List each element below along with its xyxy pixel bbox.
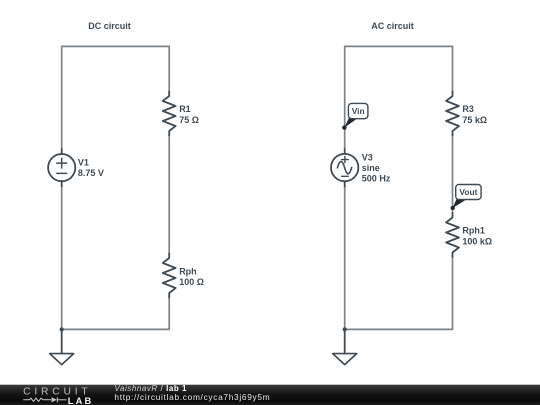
svg-text:DC circuit: DC circuit bbox=[88, 21, 131, 31]
node junction DC ground bbox=[60, 327, 64, 331]
svg-text:Rph1: Rph1 bbox=[462, 226, 485, 236]
resistor R1 bbox=[163, 92, 176, 136]
logo CircuitLab wordmark bbox=[23, 386, 93, 405]
ground AC bbox=[333, 329, 357, 364]
svg-text:Vin: Vin bbox=[352, 106, 365, 116]
svg-text:R3: R3 bbox=[462, 104, 474, 114]
svg-text:500 Hz: 500 Hz bbox=[362, 173, 391, 183]
voltage source V1 bbox=[48, 149, 75, 186]
svg-text:sine: sine bbox=[362, 163, 380, 173]
wire DC bottom bbox=[62, 186, 170, 330]
wire AC bottom bbox=[345, 186, 453, 330]
svg-text:100 kΩ: 100 kΩ bbox=[462, 236, 492, 246]
node junction AC ground bbox=[343, 327, 347, 331]
wire AC right middle bbox=[452, 135, 454, 214]
svg-text:AC circuit: AC circuit bbox=[371, 21, 414, 31]
svg-text:LAB: LAB bbox=[68, 396, 94, 405]
svg-text:V1: V1 bbox=[78, 158, 89, 168]
svg-text:http://circuitlab.com/cyca7h3j: http://circuitlab.com/cyca7h3j69y5m bbox=[114, 392, 270, 402]
svg-text:8.75 V: 8.75 V bbox=[78, 168, 104, 178]
resistor Rph1 bbox=[446, 213, 459, 257]
ground DC bbox=[50, 329, 74, 364]
resistor R3 bbox=[446, 92, 459, 136]
footer bar bbox=[0, 385, 540, 405]
wire DC right middle bbox=[168, 135, 170, 254]
voltage source V3 bbox=[331, 149, 358, 186]
svg-text:V3: V3 bbox=[362, 152, 373, 162]
svg-text:75 kΩ: 75 kΩ bbox=[462, 115, 487, 125]
svg-text:75 Ω: 75 Ω bbox=[179, 115, 199, 125]
node Vout flag bbox=[451, 185, 482, 211]
wire AC top bbox=[345, 46, 453, 149]
node Vin flag bbox=[342, 103, 368, 129]
logo resistor-diode squiggle bbox=[23, 397, 66, 402]
svg-text:100 Ω: 100 Ω bbox=[179, 277, 204, 287]
resistor Rph bbox=[163, 254, 176, 298]
wire DC top bbox=[62, 46, 170, 149]
svg-text:Vout: Vout bbox=[459, 187, 477, 197]
svg-text:R1: R1 bbox=[179, 104, 191, 114]
svg-text:Rph: Rph bbox=[179, 266, 197, 276]
